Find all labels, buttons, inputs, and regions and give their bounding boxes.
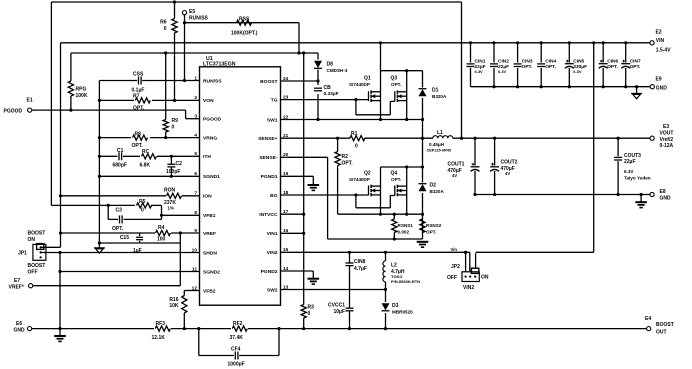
svg-text:OPT.: OPT. — [522, 64, 533, 70]
capacitor CIN6 OPT. — [599, 41, 619, 86]
capacitor CIN8 4.7uF — [346, 252, 367, 308]
svg-text:6.3V: 6.3V — [498, 69, 507, 74]
capacitor CB 0.33uF — [313, 85, 339, 97]
svg-text:BOOST: BOOST — [260, 79, 277, 85]
svg-text:Q2: Q2 — [364, 171, 371, 177]
wire pin 17 INTVCC — [281, 213, 306, 216]
svg-text:D3: D3 — [392, 303, 399, 309]
svg-text:E6: E6 — [16, 321, 22, 327]
svg-text:CIN6: CIN6 — [607, 58, 618, 64]
svg-text:RSNS1: RSNS1 — [398, 223, 414, 228]
svg-text:100: 100 — [157, 236, 166, 242]
svg-text:OPT.: OPT. — [607, 64, 618, 70]
capacitor C2 100pF — [166, 155, 182, 178]
capacitor COUT2 470uF — [490, 138, 518, 196]
svg-text:VIN2: VIN2 — [267, 250, 278, 256]
svg-text:OPT.: OPT. — [133, 106, 145, 112]
wire pin 20 SENSE- — [281, 157, 328, 239]
svg-text:CEP125-0R45: CEP125-0R45 — [427, 148, 451, 152]
svg-text:R2: R2 — [342, 154, 349, 160]
wire PGOOD to pin 3 — [32, 110, 200, 119]
wire JP1 top pin to VIN drop — [41, 246, 61, 248]
capacitor CVCC1 10uF — [328, 302, 353, 330]
svg-text:D8: D8 — [327, 62, 334, 68]
wire Q1 drain column — [379, 41, 382, 119]
resistor R16 10K — [169, 291, 187, 331]
wire BG branch to Q4 gate — [356, 195, 395, 208]
inductor L2 4.7uH — [383, 252, 420, 289]
svg-text:ITH: ITH — [203, 154, 211, 160]
ground PGND1 — [308, 185, 320, 190]
svg-text:OFF: OFF — [28, 269, 38, 275]
jumper JP1 BOOST — [18, 231, 46, 276]
transistor Q1 SI7440DP — [349, 76, 381, 102]
capacitor CIN2 22µF — [490, 41, 509, 86]
wire pin 1 RUN/SS — [99, 80, 199, 82]
svg-text:CIN7: CIN7 — [630, 58, 641, 64]
svg-text:VOUT: VOUT — [660, 131, 674, 137]
svg-text:D1: D1 — [432, 88, 439, 94]
svg-text:12.1K: 12.1K — [152, 335, 166, 341]
svg-text:VFB2: VFB2 — [203, 288, 216, 294]
wire VIN bus — [61, 42, 650, 44]
wire VOUT top drop — [461, 2, 463, 138]
svg-text:SW1: SW1 — [267, 117, 278, 123]
svg-text:RSNS2: RSNS2 — [426, 223, 442, 228]
diode D1 B320A — [418, 71, 447, 239]
wire SGND left drop — [98, 81, 101, 248]
svg-text:BG: BG — [270, 193, 278, 199]
svg-text:TG: TG — [271, 97, 278, 103]
wire Q2 drain column — [380, 167, 382, 214]
svg-text:R3: R3 — [308, 305, 315, 311]
diode D8 CMDSH-3 — [313, 60, 348, 73]
svg-text:SHDN: SHDN — [203, 250, 217, 256]
svg-text:R8: R8 — [135, 131, 142, 137]
svg-text:CIN4: CIN4 — [545, 58, 556, 64]
svg-text:PGOOD: PGOOD — [4, 108, 23, 114]
svg-text:E9: E9 — [656, 76, 662, 82]
node switch column junctions — [421, 165, 424, 215]
svg-text:6.3V: 6.3V — [475, 69, 484, 74]
svg-text:R4: R4 — [158, 225, 165, 231]
wire COUT ground bus — [475, 193, 650, 196]
svg-text:SGND1: SGND1 — [203, 174, 220, 180]
svg-text:CIN8: CIN8 — [354, 259, 366, 265]
wire pin 23 TG — [281, 98, 369, 101]
svg-text:CIN5: CIN5 — [573, 58, 584, 64]
svg-text:VREF: VREF — [203, 231, 216, 237]
svg-text:COUT2: COUT2 — [501, 159, 518, 165]
terminal E6 GND — [14, 321, 32, 333]
terminal E3 VOUT — [650, 124, 674, 149]
resistor RSNS1 0.002 — [392, 214, 414, 240]
svg-text:CIN1: CIN1 — [475, 58, 486, 64]
svg-text:0: 0 — [308, 311, 311, 317]
wire pin 18 BG — [281, 193, 369, 196]
wire pin 6 SGND1 — [99, 175, 199, 177]
svg-text:1%: 1% — [168, 206, 174, 211]
svg-text:BOOST: BOOST — [28, 231, 46, 237]
svg-text:RF3: RF3 — [156, 321, 166, 327]
wire VIN left drop — [60, 43, 62, 248]
ground RSNS2 — [417, 242, 429, 247]
svg-text:Q1: Q1 — [364, 76, 371, 82]
svg-text:COUT1: COUT1 — [448, 161, 465, 167]
svg-text:E5: E5 — [189, 9, 195, 15]
svg-text:OPT.: OPT. — [342, 160, 354, 166]
wire pin 24 BOOST — [281, 79, 320, 82]
svg-text:OPT.: OPT. — [132, 143, 144, 149]
wire SENSE+ to switch node — [336, 137, 433, 140]
terminal E9 GND — [650, 76, 667, 91]
capacitor CIN1 22µF — [467, 41, 486, 86]
resistor RSNS2 OPT — [420, 219, 442, 234]
wire pin 2 VON — [99, 99, 199, 101]
svg-text:E1: E1 — [27, 98, 33, 104]
resistor R5 — [135, 199, 152, 214]
svg-text:OPT.: OPT. — [391, 177, 401, 182]
ground at E9 — [631, 87, 642, 99]
svg-text:4V: 4V — [452, 173, 457, 178]
terminal E5 RUN/SS — [182, 9, 208, 21]
capacitor COUT1 470uF — [448, 138, 480, 196]
svg-text:RC: RC — [142, 149, 150, 155]
svg-text:SI7440DP: SI7440DP — [349, 82, 370, 87]
wire lower drain bus — [381, 165, 423, 168]
svg-text:6.3V: 6.3V — [573, 69, 582, 74]
wire pin 21 SENSE+ — [281, 137, 351, 139]
resistor RPG 100K — [68, 53, 88, 112]
U1 pin names and numbers — [192, 75, 289, 294]
ground at E6 rail — [54, 329, 66, 342]
svg-text:RF2: RF2 — [233, 321, 243, 327]
wire pin 11 SGND2 — [60, 271, 200, 273]
resistor R6 — [160, 0, 177, 102]
svg-text:OPT.: OPT. — [545, 64, 556, 70]
wire VOUT top rail — [51, 1, 461, 3]
svg-text:RON: RON — [164, 187, 176, 193]
svg-text:37.4K: 37.4K — [230, 335, 244, 341]
svg-text:RSS: RSS — [239, 17, 250, 23]
wire RSS drop to INTVCC bus — [298, 23, 300, 53]
svg-text:0: 0 — [355, 143, 358, 149]
svg-text:VFB1: VFB1 — [203, 213, 216, 219]
svg-text:R9: R9 — [172, 118, 179, 124]
capacitor COUT3 22uF — [614, 138, 651, 196]
svg-text:ION: ION — [203, 194, 212, 200]
wire pin 10 SHDN — [41, 251, 200, 254]
diode D2 B320A — [418, 183, 445, 195]
wire GND left drop — [58, 253, 61, 331]
svg-text:E2: E2 — [656, 30, 662, 36]
svg-text:4V: 4V — [505, 171, 510, 176]
wire E5 to pin 1 — [183, 15, 186, 82]
svg-text:C2: C2 — [176, 161, 183, 167]
capacitor C3 OPT — [112, 207, 124, 231]
wire Q3 drain column — [406, 71, 408, 120]
resistor RC 6.8K — [140, 149, 158, 168]
svg-text:OPT.: OPT. — [630, 64, 641, 70]
wire RUN/SS to RSS — [185, 22, 300, 24]
capacitor CIN7 OPT. — [621, 41, 641, 86]
svg-text:R7: R7 — [133, 94, 140, 100]
wire pin 16 VIN1 — [281, 232, 306, 235]
transistor Q2 SI7440DP — [349, 171, 381, 197]
resistor R1 0 — [350, 131, 365, 150]
svg-text:CSS: CSS — [133, 72, 144, 78]
wire sense ground return — [328, 238, 423, 240]
svg-text:R6: R6 — [160, 20, 167, 26]
svg-text:OPT.: OPT. — [426, 229, 436, 234]
wire INTVCC bus — [71, 52, 318, 54]
svg-text:P/N.8530H-RTN: P/N.8530H-RTN — [391, 279, 420, 284]
op-amp U1 LTC3713 controller IC body — [200, 56, 281, 305]
svg-text:LTC3713EGN: LTC3713EGN — [203, 62, 236, 68]
ground PGND2 — [308, 279, 320, 284]
capacitor CIN5 330µF — [565, 41, 587, 86]
wire pin 5 ITH — [99, 155, 199, 157]
wire VOUT left drop — [50, 2, 52, 205]
svg-text:0.45µH: 0.45µH — [429, 142, 445, 147]
capacitor CIN3 OPT. — [514, 41, 533, 86]
svg-text:1000pF: 1000pF — [228, 361, 245, 367]
wire TG branch to Q3 gate — [356, 100, 395, 115]
svg-text:C15: C15 — [120, 235, 129, 241]
wire C15 ground return — [99, 242, 180, 244]
svg-text:100K: 100K — [76, 93, 88, 99]
svg-text:RPG: RPG — [76, 86, 87, 92]
wire switch node to VOUT — [453, 137, 650, 140]
wire D8/CB column — [317, 53, 319, 120]
wire pin 12 VFB2 — [184, 290, 199, 292]
resistor R9 — [163, 53, 178, 139]
svg-text:E7: E7 — [14, 278, 20, 284]
svg-text:0-12A: 0-12A — [660, 143, 674, 149]
resistor R2 OPT — [335, 138, 353, 214]
inductor L1 0.45uH — [427, 130, 454, 152]
svg-text:CF4: CF4 — [231, 347, 241, 353]
resistor R7 OPT — [133, 94, 152, 112]
svg-text:100pF: 100pF — [166, 169, 180, 175]
resistor R3 0 — [301, 305, 314, 331]
wire lower source bus — [338, 213, 423, 216]
svg-text:BOOST: BOOST — [28, 263, 46, 269]
svg-text:Vin: Vin — [451, 247, 458, 252]
svg-text:Taiyo Yuden: Taiyo Yuden — [624, 176, 651, 181]
svg-text:6.3V: 6.3V — [624, 169, 634, 174]
transistor Q4 OPT — [391, 171, 407, 197]
svg-text:OFF: OFF — [447, 275, 457, 281]
svg-text:GND: GND — [14, 328, 26, 334]
svg-text:MBR0520: MBR0520 — [392, 309, 413, 314]
svg-text:L1: L1 — [437, 130, 443, 136]
resistor RF3 12.1K — [152, 321, 172, 341]
svg-text:RUN/SS: RUN/SS — [189, 16, 209, 22]
svg-text:SENSE+: SENSE+ — [258, 136, 278, 142]
wire CIN ground bus — [471, 85, 650, 88]
wire pin 8 VFB1 — [162, 214, 200, 216]
svg-text:OUT: OUT — [656, 330, 667, 336]
svg-text:ON: ON — [28, 237, 36, 243]
capacitor CSS 0.1uF — [132, 72, 145, 94]
capacitor C1 680pF — [113, 148, 127, 168]
svg-text:C1: C1 — [117, 148, 124, 154]
svg-text:OPT.: OPT. — [391, 82, 401, 87]
svg-text:CB: CB — [324, 85, 332, 91]
wire VREF to E7 drop — [179, 233, 181, 286]
resistor RON 237K — [164, 187, 182, 210]
svg-text:E3: E3 — [663, 124, 669, 130]
svg-text:E8: E8 — [660, 189, 666, 195]
svg-text:0.002: 0.002 — [398, 229, 410, 234]
svg-text:L2: L2 — [391, 263, 397, 269]
svg-text:JP2: JP2 — [451, 264, 460, 270]
wire E7 VREF* — [33, 285, 180, 287]
svg-text:R16: R16 — [169, 297, 178, 303]
terminal E8 GND — [650, 189, 671, 201]
svg-text:R1: R1 — [351, 131, 358, 137]
svg-text:E4: E4 — [645, 316, 651, 322]
wire pin 15 VIN2 — [281, 251, 470, 254]
wire VIN right drop — [476, 41, 596, 252]
capacitor CIN4 OPT. — [537, 41, 556, 86]
svg-text:VREF*: VREF* — [9, 285, 24, 291]
svg-text:C3: C3 — [116, 207, 123, 213]
capacitor CF4 1000pF loop — [197, 327, 280, 367]
resistor RSS 100K — [231, 17, 258, 37]
svg-text:GND: GND — [660, 195, 672, 201]
svg-text:SGND2: SGND2 — [203, 269, 220, 275]
terminal E1 PGOOD — [4, 98, 33, 115]
svg-text:R5: R5 — [139, 199, 146, 205]
wire pin 13 SW2 — [281, 288, 388, 291]
svg-text:4.7µF: 4.7µF — [354, 266, 367, 272]
svg-text:SI7440DP: SI7440DP — [349, 177, 370, 182]
wire pin 19 PGND1 — [281, 176, 314, 185]
svg-text:OPT.: OPT. — [112, 226, 124, 232]
svg-text:CIN2: CIN2 — [498, 58, 509, 64]
resistor R4 100 — [155, 225, 171, 242]
svg-text:VIN: VIN — [656, 38, 665, 44]
svg-text:10K: 10K — [169, 303, 179, 309]
svg-text:VRNG: VRNG — [203, 135, 217, 141]
svg-text:10µF: 10µF — [334, 309, 346, 315]
svg-text:Q4: Q4 — [391, 171, 398, 177]
resistor RF2 37.4K — [230, 321, 249, 341]
wire pin 14 PGND2 — [281, 271, 314, 279]
svg-text:CIN3: CIN3 — [522, 58, 533, 64]
svg-text:0: 0 — [141, 207, 144, 213]
svg-text:0.33µF: 0.33µF — [324, 91, 339, 97]
svg-text:D2: D2 — [430, 183, 437, 189]
wire INTVCC column — [303, 53, 305, 305]
wire pin 4 VRNG — [99, 137, 199, 139]
svg-text:Q3: Q3 — [391, 76, 398, 82]
svg-text:JP1: JP1 — [18, 250, 27, 256]
svg-text:0: 0 — [172, 124, 175, 130]
transistor Q3 OPT — [391, 76, 407, 102]
svg-text:680pF: 680pF — [113, 162, 127, 168]
wire pin 9 VREF — [59, 231, 200, 234]
node INTVCC bus junctions — [164, 51, 305, 54]
terminal E7 VREF* — [9, 278, 33, 290]
wire Q4 drain column — [406, 167, 408, 214]
svg-text:22µF: 22µF — [624, 159, 636, 165]
svg-text:GND: GND — [656, 85, 668, 91]
wire pin 22 SW1 — [281, 118, 425, 121]
svg-text:SW2: SW2 — [267, 287, 278, 293]
svg-text:100K(OPT.): 100K(OPT.) — [231, 31, 258, 37]
svg-text:ON: ON — [481, 274, 489, 280]
svg-text:B320A: B320A — [432, 94, 447, 99]
svg-text:PGOOD: PGOOD — [203, 117, 222, 123]
resistor R8 OPT — [131, 131, 150, 148]
svg-text:BOOST: BOOST — [656, 322, 674, 328]
svg-text:6.8K: 6.8K — [140, 162, 151, 168]
diode D3 MBR0520 — [381, 290, 414, 331]
svg-text:CVCC1: CVCC1 — [328, 302, 345, 308]
capacitor C15 1uF — [120, 233, 143, 254]
wire bottom BOOST OUT rail — [32, 328, 646, 330]
terminal E2 VIN — [650, 30, 671, 54]
jumper JP2 VIN2 — [447, 252, 489, 291]
svg-text:0: 0 — [164, 26, 167, 32]
svg-text:PGND1: PGND1 — [261, 174, 278, 180]
ground at E8 — [635, 195, 647, 208]
svg-text:VIN1: VIN1 — [267, 231, 278, 237]
svg-text:SENSE-: SENSE- — [259, 155, 278, 161]
svg-text:Vref/2: Vref/2 — [660, 137, 674, 143]
terminal E4 BOOST OUT — [645, 316, 674, 335]
svg-text:VON: VON — [203, 98, 214, 104]
wire C3 loop — [108, 205, 163, 219]
wire VOUT to R5 — [51, 204, 161, 207]
ground SGND open triangle — [94, 248, 105, 253]
svg-text:RUN/SS: RUN/SS — [203, 78, 222, 84]
svg-text:INTVCC: INTVCC — [259, 212, 278, 218]
svg-text:B320A: B320A — [430, 189, 445, 194]
svg-text:COUT3: COUT3 — [624, 153, 641, 159]
svg-text:VIN2: VIN2 — [463, 285, 474, 291]
svg-text:1.5-4V: 1.5-4V — [656, 47, 671, 53]
node Vin label — [451, 247, 468, 254]
svg-text:PGND2: PGND2 — [261, 269, 278, 275]
svg-text:CMDSH-3: CMDSH-3 — [327, 68, 348, 73]
wire upper drain bus — [381, 69, 423, 72]
wire pin 7 ION — [59, 194, 200, 197]
svg-text:TOKO: TOKO — [391, 274, 402, 279]
